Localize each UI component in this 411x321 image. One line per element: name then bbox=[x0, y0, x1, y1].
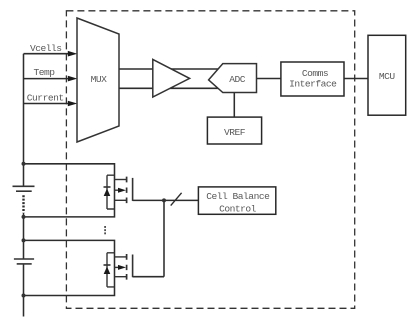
svg-text:MCU: MCU bbox=[379, 71, 396, 82]
svg-text:Temp: Temp bbox=[34, 67, 56, 78]
svg-text:Control: Control bbox=[219, 203, 257, 214]
svg-text:Current: Current bbox=[27, 93, 64, 104]
svg-text:VREF: VREF bbox=[224, 127, 246, 138]
svg-text:MUX: MUX bbox=[91, 74, 108, 85]
svg-text:Interface: Interface bbox=[289, 79, 337, 90]
svg-text:ADC: ADC bbox=[229, 74, 246, 85]
svg-text:Vcells: Vcells bbox=[30, 43, 62, 54]
svg-text:Cell Balance: Cell Balance bbox=[206, 191, 270, 202]
svg-text:Comms: Comms bbox=[302, 68, 328, 79]
